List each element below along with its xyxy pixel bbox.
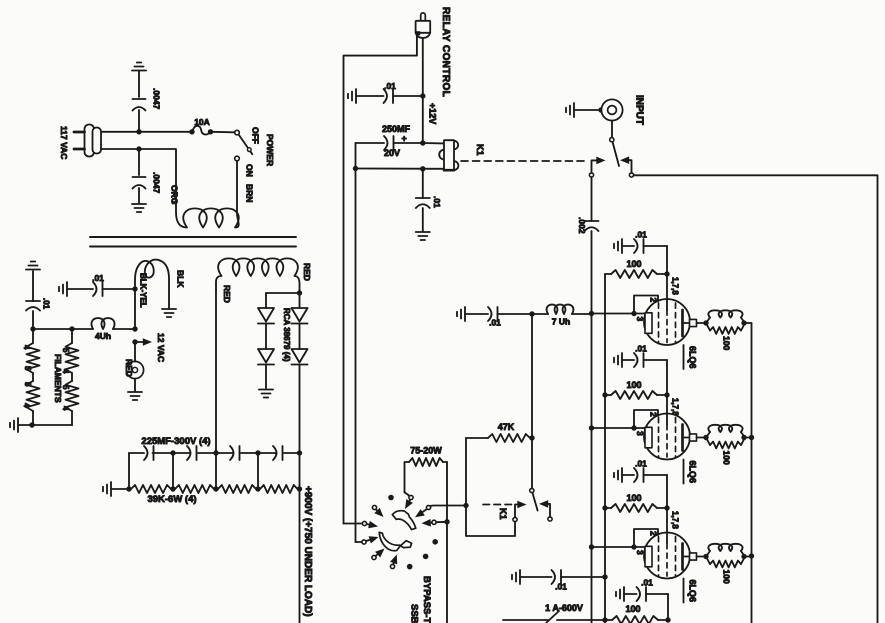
- label 900V: [302, 486, 313, 617]
- label 100 V2: [626, 380, 641, 390]
- pin 5 label c: [61, 348, 70, 353]
- capacitor .01 relay bottom: [416, 198, 430, 231]
- arrow rotary 8: [422, 519, 432, 527]
- svg-text:+900V (+750 UNDER LOAD): +900V (+750 UNDER LOAD): [302, 486, 313, 617]
- switch arm K1 bottom: [532, 493, 537, 511]
- svg-text:100: 100: [722, 451, 732, 465]
- contact K1 bot pivot: [530, 488, 534, 492]
- wire K1 actuator dashed: [461, 160, 584, 162]
- node res row gnd: [126, 486, 131, 491]
- svg-text:RED: RED: [302, 263, 312, 281]
- relay K1 coil: [439, 140, 458, 170]
- node grid V1: [631, 311, 636, 316]
- contact K1 bot left: [513, 517, 517, 521]
- wire relay bypass leg: [422, 169, 424, 198]
- contact rotary 6: [390, 564, 394, 568]
- label 117 VAC: [59, 126, 69, 159]
- node supp t2: [749, 435, 754, 440]
- transformer T1 secondary RED winding: [216, 258, 300, 290]
- wire RED left down: [215, 290, 217, 453]
- wire BLK-YEL down: [134, 289, 136, 329]
- wire grid row 2: [592, 427, 646, 429]
- capacitor .01 bypass V2: [614, 353, 667, 395]
- wire 250MF left leg: [355, 143, 357, 169]
- wire screen bus: [604, 274, 606, 623]
- label .01 V3: [635, 459, 647, 469]
- contact rotary 5: [372, 555, 376, 559]
- label OFF: [251, 127, 261, 144]
- contact rotary 3: [362, 521, 366, 525]
- wire bias L path: [466, 506, 515, 537]
- svg-text:225MF-300V (4): 225MF-300V (4): [141, 436, 210, 447]
- node supp out V3: [741, 554, 746, 559]
- svg-text:RED: RED: [222, 285, 232, 303]
- label RED right: [302, 263, 312, 281]
- node +12V b: [420, 140, 425, 145]
- node supp out V2: [741, 435, 746, 440]
- rotary switch wiper upper: [392, 511, 416, 530]
- svg-text:5: 5: [23, 382, 32, 387]
- svg-text:.01: .01: [92, 273, 104, 283]
- resistor 100 grid V1: [605, 270, 664, 278]
- svg-text:2: 2: [649, 531, 659, 536]
- node rectifier top: [297, 290, 302, 295]
- svg-text:RCA 38679 (4): RCA 38679 (4): [282, 308, 291, 362]
- label ON: [245, 164, 255, 177]
- svg-text:7 Uh: 7 Uh: [552, 317, 570, 327]
- pin 4 label b: [22, 403, 31, 408]
- diode D3: [292, 308, 308, 349]
- svg-text:100: 100: [626, 259, 641, 269]
- svg-text:1,7,8: 1,7,8: [671, 511, 680, 529]
- fuse 1A-600V: [503, 611, 612, 623]
- connector INPUT jack: [601, 99, 622, 120]
- node AC hot at C1: [136, 129, 141, 134]
- transformer T1 secondary BLK-YEL winding: [135, 260, 169, 308]
- svg-text:20V: 20V: [384, 148, 400, 158]
- label BYPASS-T: [421, 576, 432, 623]
- contact K1 in right: [629, 173, 633, 177]
- node fourth: [665, 617, 670, 622]
- svg-text:6LQ6: 6LQ6: [688, 346, 698, 369]
- label POWER: [265, 134, 275, 166]
- pilot lamp RED: [126, 342, 143, 391]
- connector RELAY CONTROL: [416, 13, 431, 38]
- wire contact3 feed: [344, 523, 363, 525]
- svg-text:ORG: ORG: [170, 185, 180, 205]
- ground below C2: [132, 204, 146, 212]
- ground input jack: [566, 103, 601, 117]
- svg-text:INPUT: INPUT: [634, 95, 645, 125]
- svg-text:3: 3: [635, 431, 645, 436]
- wire AC hot: [101, 131, 192, 133]
- label .002: [577, 217, 587, 234]
- label 3 V3: [635, 550, 645, 555]
- svg-text:BLK-YEL: BLK-YEL: [139, 273, 148, 308]
- svg-text:.01: .01: [641, 578, 653, 588]
- node cap row d: [297, 450, 302, 455]
- svg-text:39K-6W (4): 39K-6W (4): [147, 494, 196, 505]
- node grid t3: [589, 544, 594, 549]
- transformer T1 primary ORG-BRN: [139, 149, 239, 228]
- svg-text:FILAMENTS: FILAMENTS: [53, 354, 63, 403]
- rotary switch wiper lower: [379, 532, 411, 550]
- capacitor .01 input: [457, 307, 532, 321]
- suppressor L-R 100 V2: [706, 425, 745, 449]
- label SSB: [409, 604, 420, 623]
- svg-text:RED: RED: [124, 359, 134, 377]
- label BLK-YEL: [139, 273, 148, 308]
- label 3 V2: [635, 431, 645, 436]
- node grid V3: [631, 544, 636, 549]
- node res row d: [297, 486, 302, 491]
- wire rotary link: [405, 492, 410, 496]
- capacitor .01 screen: [512, 570, 605, 584]
- label 100 supp V3: [722, 570, 732, 584]
- svg-text:+12V: +12V: [428, 103, 438, 124]
- contact rotary 7: [426, 505, 430, 509]
- filament zig r2: [66, 381, 79, 411]
- svg-text:.01: .01: [635, 459, 647, 469]
- label 39K-6W (4): [147, 494, 196, 505]
- svg-text:100: 100: [626, 380, 641, 390]
- svg-text:OFF: OFF: [251, 127, 261, 144]
- fuse 10A: [189, 126, 235, 135]
- label 100 supp V1: [722, 336, 732, 350]
- svg-text:.01: .01: [432, 196, 442, 208]
- node res row b: [213, 486, 218, 491]
- capacitor .01 filament line: [59, 282, 135, 296]
- label FILAMENTS: [53, 354, 63, 403]
- node grid bus top: [589, 311, 594, 316]
- svg-text:100: 100: [722, 336, 732, 350]
- node pins178 V3: [664, 505, 669, 510]
- label .01 input: [489, 318, 501, 328]
- label 100 fourth: [625, 604, 640, 614]
- contact input pivot: [610, 138, 614, 142]
- label 3 V1: [635, 317, 645, 322]
- arrow rotary 7: [415, 509, 427, 517]
- label 100 V1: [626, 259, 641, 269]
- filament heaters right chain: [71, 329, 73, 425]
- wire AC neutral: [101, 148, 139, 150]
- svg-text:2: 2: [649, 412, 659, 417]
- svg-text:BRN: BRN: [245, 184, 255, 202]
- label 20V: [384, 148, 400, 158]
- arrow rotary 4: [366, 536, 378, 543]
- tube V1 6LQ6: [644, 274, 690, 345]
- node input coupling: [529, 311, 534, 316]
- wire suppressor bus: [751, 323, 753, 623]
- plate lead V3: [683, 553, 704, 560]
- label .01 V1: [635, 230, 647, 240]
- wire K1 bot dashed: [483, 504, 513, 506]
- label .01 screen: [555, 582, 567, 592]
- svg-text:12 VAC: 12 VAC: [156, 333, 166, 362]
- label 1,7,8 V1: [671, 277, 680, 295]
- wire relay control shield: [344, 33, 417, 524]
- contact rotary 1: [409, 495, 413, 499]
- svg-text:BLK: BLK: [176, 270, 186, 288]
- capacitor 250MF 20V: [356, 136, 423, 150]
- node res row c: [255, 486, 260, 491]
- node plate V3: [703, 554, 708, 559]
- ground below pilot lamp: [128, 392, 142, 400]
- label .01 relay bottom: [432, 196, 442, 208]
- ground filament bottom: [10, 418, 18, 432]
- link cap-res c: [257, 453, 259, 489]
- node cap row a: [170, 450, 175, 455]
- switch arm input: [613, 142, 620, 166]
- svg-text:4: 4: [22, 345, 31, 350]
- svg-text:.0047: .0047: [152, 172, 162, 194]
- resistor 39K b: [175, 485, 214, 493]
- label 100 V3: [626, 493, 641, 503]
- node +12V a: [420, 93, 425, 98]
- svg-text:100: 100: [625, 604, 640, 614]
- svg-text:.01: .01: [635, 230, 647, 240]
- arrow rotary 3: [367, 521, 378, 528]
- svg-text:75-20W: 75-20W: [410, 446, 442, 456]
- pin 5 label d: [61, 385, 70, 390]
- node 4Uh left: [69, 326, 74, 331]
- node screen t3: [602, 505, 607, 510]
- label .01 filament left: [42, 298, 51, 310]
- svg-text:5: 5: [61, 348, 70, 353]
- ground below D2: [259, 390, 273, 398]
- wire grid bus upper: [591, 177, 593, 221]
- tube V2 6LQ6: [644, 395, 690, 460]
- capacitor .01 relay: [348, 89, 423, 103]
- ground above filament C4: [26, 262, 40, 270]
- wire K1 bottom feed: [531, 438, 533, 488]
- label .0047 lower: [152, 172, 162, 194]
- svg-text:K1: K1: [498, 508, 508, 520]
- label 100 supp V2: [722, 451, 732, 465]
- wire 900V bus: [299, 453, 301, 623]
- label .01 filament: [92, 273, 104, 283]
- pin 5 label b: [23, 382, 32, 387]
- node relay bottom: [420, 166, 425, 171]
- suppressor L-R 100 V1: [706, 310, 745, 334]
- label RED left: [222, 285, 232, 303]
- label 10A: [194, 117, 210, 127]
- wire grid row 3: [592, 546, 646, 548]
- transformer T1 core: [90, 237, 296, 247]
- node supp t3: [749, 553, 754, 558]
- pin 2 box V3: [634, 529, 658, 547]
- svg-text:3: 3: [635, 550, 645, 555]
- wire supp to bus V2: [744, 437, 752, 439]
- node screen d: [602, 617, 607, 622]
- wire relay lower rail: [356, 168, 444, 170]
- contact rotary 8: [432, 520, 436, 524]
- pin 2 box V1: [634, 296, 658, 314]
- node cap row b: [213, 450, 218, 455]
- label +12V: [428, 103, 438, 124]
- capacitor .002: [585, 221, 599, 314]
- svg-text:.01: .01: [635, 344, 647, 354]
- capacitor 225MF d: [273, 446, 283, 460]
- inductor 4Uh: [72, 318, 135, 329]
- svg-text:4: 4: [22, 403, 31, 408]
- contact K1 in left: [589, 173, 593, 177]
- label ORG: [170, 185, 180, 205]
- label .01 relay: [384, 81, 396, 91]
- label 225MF-300V (4): [141, 436, 210, 447]
- arrow rotary 2: [374, 508, 383, 517]
- arrow 12 VAC: [135, 338, 152, 346]
- svg-text:ON: ON: [245, 164, 255, 177]
- resistor 100 grid V2: [605, 391, 664, 399]
- contact rotary 2: [372, 505, 376, 509]
- diode D4: [292, 349, 308, 453]
- node screen c: [602, 574, 607, 579]
- ground below BLK: [162, 309, 176, 317]
- arrow rotary 6: [390, 555, 397, 565]
- pin 4 label a: [22, 345, 31, 350]
- label .01 fourth: [641, 578, 653, 588]
- wire 250MF bus down: [355, 169, 357, 542]
- node grid V2: [631, 425, 636, 430]
- svg-text:.01: .01: [555, 582, 567, 592]
- svg-text:100: 100: [626, 493, 641, 503]
- svg-text:250MF: 250MF: [382, 124, 411, 134]
- label INPUT: [634, 95, 645, 125]
- wire grid row 1: [592, 313, 646, 315]
- wire supp to bus V3: [744, 556, 752, 558]
- label 1,7,8 V3: [671, 511, 680, 529]
- resistor 39K a: [131, 485, 171, 493]
- svg-text:47K: 47K: [498, 422, 515, 432]
- label 2 V3: [649, 531, 659, 536]
- label 2 V2: [649, 412, 659, 417]
- svg-text:SSB: SSB: [409, 604, 420, 623]
- resistor 100 fourth: [612, 616, 665, 623]
- node 47K right: [529, 435, 534, 440]
- label 250MF: [382, 124, 411, 134]
- filament heaters left chain: [32, 329, 34, 425]
- arrow rotary 5: [375, 549, 384, 558]
- label K1 bottom: [498, 508, 508, 520]
- capacitor .01 filament left: [26, 271, 40, 329]
- filament zig r1: [66, 343, 79, 373]
- node bias link: [463, 503, 468, 508]
- resistor 75-20W: [405, 458, 448, 492]
- resistor 100 grid V3: [605, 504, 664, 512]
- pin 4 label c: [61, 369, 70, 374]
- AC plug 117 VAC: [74, 125, 101, 157]
- wire RED right down: [299, 290, 301, 308]
- label BLK: [176, 270, 186, 288]
- label 6LQ6 V3: [684, 579, 698, 603]
- wire 47K left leg: [465, 438, 467, 506]
- filament zig l2: [27, 381, 40, 411]
- node screen t2: [602, 392, 607, 397]
- label .0047 upper: [152, 88, 162, 110]
- label .01 V2: [635, 344, 647, 354]
- wire grid bus: [591, 314, 593, 623]
- inductor 7Uh: [532, 305, 592, 314]
- capacitor 225MF c: [230, 446, 240, 460]
- tube V3 6LQ6: [644, 508, 690, 579]
- node filament junction: [132, 326, 137, 331]
- svg-text:2: 2: [649, 298, 659, 303]
- suppressor L-R 100 V3: [706, 544, 745, 568]
- svg-text:6LQ6: 6LQ6: [688, 461, 698, 484]
- label 4Uh: [95, 331, 111, 341]
- label BRN: [245, 184, 255, 202]
- svg-text:K1: K1: [475, 144, 485, 156]
- label 6LQ6 V2: [684, 460, 698, 484]
- capacitor .01 bypass V3: [614, 468, 667, 508]
- wire to plate bus: [634, 175, 878, 623]
- node BLK-YEL / C3: [132, 286, 137, 291]
- svg-text:117 VAC: 117 VAC: [59, 126, 69, 159]
- diode D2: [258, 349, 274, 388]
- label 2 V1: [649, 298, 659, 303]
- node plate V2: [703, 435, 708, 440]
- node jack ground: [598, 107, 603, 112]
- svg-text:100: 100: [722, 570, 732, 584]
- capacitor .0047 upper: [132, 63, 146, 132]
- resistor 39K c: [218, 485, 256, 493]
- node pins178 V2: [664, 392, 669, 397]
- wire K1 right contact: [620, 156, 632, 173]
- svg-text:1,7,8: 1,7,8: [671, 277, 680, 295]
- wire supp to bus V1: [744, 322, 752, 324]
- label 75-20W: [410, 446, 442, 456]
- wire relay upper rail: [423, 142, 444, 144]
- wire K1 left contact: [592, 157, 606, 173]
- label RELAY CONTROL: [440, 7, 451, 97]
- label K1 relay: [475, 144, 485, 156]
- node grid t2: [589, 425, 594, 430]
- svg-text:.01: .01: [489, 318, 501, 328]
- capacitor 225MF b: [187, 446, 197, 460]
- node cap row c: [255, 450, 260, 455]
- plate lead V2: [683, 434, 704, 441]
- node filament left: [30, 326, 35, 331]
- svg-text:4: 4: [61, 406, 70, 411]
- node filament bottom: [29, 422, 34, 427]
- label 6LQ6 V1: [684, 345, 698, 369]
- wire relay control center: [422, 38, 424, 96]
- svg-text:.0047: .0047: [152, 88, 162, 110]
- wire K1 bot left contact: [515, 501, 527, 518]
- resistor 39K d: [260, 485, 298, 493]
- capacitor .01 bypass V1: [614, 239, 667, 274]
- node pins178 V1: [664, 271, 669, 276]
- switch POWER: [235, 130, 253, 161]
- wire cap row: [129, 452, 300, 454]
- link cap-res a: [172, 453, 174, 489]
- plate lead V1: [683, 319, 704, 326]
- label RED pilot: [124, 359, 134, 377]
- label RCA 38679 (4): [282, 308, 291, 362]
- label plus: [402, 134, 407, 144]
- label 7 Uh: [552, 317, 570, 327]
- wire K1 bot right contact: [539, 500, 550, 517]
- label 12 VAC: [156, 333, 166, 362]
- ground bleeder: [103, 482, 129, 496]
- wire contact4 feed: [356, 541, 362, 543]
- wire to filaments: [33, 328, 72, 330]
- node supp out V1: [741, 320, 746, 325]
- wire filament bottom: [19, 424, 72, 426]
- node 250MF neg: [353, 166, 358, 171]
- filament zig l1: [27, 343, 40, 373]
